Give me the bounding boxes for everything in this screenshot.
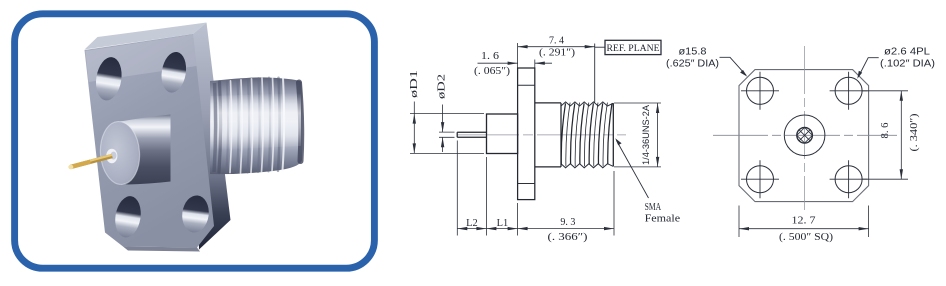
svg-text:(.625″ DIA): (.625″ DIA)	[666, 57, 719, 69]
svg-text:8. 6: 8. 6	[880, 123, 891, 139]
dimension 7.4	[518, 36, 595, 68]
barrel thread ridges	[219, 78, 301, 173]
svg-text:7. 4: 7. 4	[549, 36, 565, 47]
dimension 1/4-36UNS-2A	[614, 103, 661, 167]
svg-text:1. 6: 1. 6	[481, 51, 499, 62]
svg-text:ø2.6 4PL: ø2.6 4PL	[884, 46, 930, 58]
SMA Female label and leader	[615, 138, 680, 224]
hole bottom-left	[741, 160, 779, 198]
barrel specular band	[211, 93, 301, 150]
flange bottom face sliver	[123, 247, 200, 252]
barrel cylinder	[210, 77, 303, 174]
smooth barrel section	[535, 103, 561, 167]
hole bottom-right	[830, 160, 868, 198]
horizontal centerline	[713, 134, 897, 136]
barrel left crevice	[214, 83, 216, 172]
svg-text:1/4-36UNS-2A: 1/4-36UNS-2A	[641, 105, 651, 165]
bottom dimensions L2 L1 9.3	[457, 141, 614, 244]
boss face rim light	[98, 120, 141, 186]
dimension 1.6	[474, 51, 552, 77]
center pin circle with hatch	[797, 128, 813, 144]
middle side-view drawing	[409, 36, 680, 244]
thread crest bottom	[561, 164, 613, 168]
blue rounded frame	[15, 14, 375, 268]
flange square outline with chamfers	[739, 70, 869, 202]
svg-text:L2: L2	[466, 218, 478, 229]
dimension dia D1	[409, 70, 484, 153]
REF PLANE box	[595, 40, 661, 54]
center boss side wall	[120, 115, 171, 185]
gold pin	[70, 154, 113, 169]
vertical centerline	[804, 46, 806, 210]
center insulator circle	[784, 115, 825, 156]
flange right side face	[193, 23, 231, 250]
svg-text:øD2: øD2	[436, 74, 447, 99]
svg-text:ø15.8: ø15.8	[679, 46, 707, 58]
hole top-left	[93, 55, 125, 102]
label dia 15.8	[666, 46, 747, 77]
flange front face	[85, 34, 215, 248]
right front-view drawing	[666, 46, 935, 244]
hole top-right	[830, 72, 868, 110]
svg-text:(. 366″): (. 366″)	[548, 232, 588, 243]
dimension 12.7	[739, 206, 869, 244]
svg-text:øD1: øD1	[409, 70, 420, 98]
white dielectric ring	[106, 149, 117, 163]
flange plate	[518, 68, 535, 200]
svg-text:(. 291″): (. 291″)	[539, 47, 575, 58]
thread helix lines	[561, 103, 612, 167]
dimension 8.6	[862, 91, 920, 179]
svg-text:L1: L1	[497, 218, 509, 229]
label dia 2.6 4PL	[857, 46, 935, 79]
svg-text:REF. PLANE: REF. PLANE	[606, 43, 659, 54]
REF plane line	[594, 44, 596, 103]
flange hole lines	[518, 85, 535, 183]
connector body	[487, 114, 518, 154]
dimension dia D2	[436, 74, 454, 152]
flange top face	[85, 23, 207, 50]
svg-text:SMA: SMA	[645, 202, 662, 213]
svg-text:12. 7: 12. 7	[792, 216, 816, 227]
svg-text:(. 500″ SQ): (. 500″ SQ)	[779, 232, 833, 243]
hole bottom-left	[112, 194, 143, 239]
svg-text:Female: Female	[645, 214, 681, 225]
hole top-right	[159, 50, 189, 94]
hole top-left	[741, 72, 779, 110]
svg-text:9. 3: 9. 3	[560, 217, 575, 228]
center pin	[457, 132, 486, 137]
svg-text:(.102″ DIA): (.102″ DIA)	[880, 57, 935, 69]
svg-text:(. 340″): (. 340″)	[909, 114, 920, 152]
thread end face	[612, 103, 614, 166]
svg-text:(. 065″): (. 065″)	[474, 66, 510, 77]
flange front face top sheen	[86, 35, 197, 83]
centerline	[457, 134, 626, 136]
hole bottom-right	[180, 194, 211, 234]
center boss front face	[98, 120, 141, 186]
thread crest top	[561, 102, 613, 106]
3D connector rendering	[68, 23, 302, 252]
